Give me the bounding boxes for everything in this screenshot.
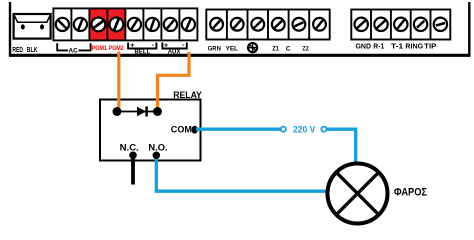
svg-text:RING: RING: [405, 44, 423, 51]
svg-text:RED: RED: [12, 45, 23, 54]
svg-text:BLK: BLK: [27, 45, 39, 54]
svg-text:YEL: YEL: [226, 46, 238, 53]
svg-text:TIP: TIP: [424, 44, 437, 51]
svg-text:PGM1 PGM2: PGM1 PGM2: [92, 45, 124, 52]
svg-text:GRN: GRN: [208, 46, 221, 53]
svg-text:Z1: Z1: [272, 46, 279, 53]
svg-text:N.C.: N.C.: [120, 142, 139, 153]
svg-text:+: +: [130, 42, 134, 49]
svg-text:220 V: 220 V: [293, 124, 316, 134]
svg-text:+: +: [164, 42, 168, 49]
svg-text:GND: GND: [356, 44, 372, 51]
svg-text:R-1: R-1: [373, 44, 384, 51]
svg-text:BELL: BELL: [135, 49, 151, 56]
svg-text:C: C: [286, 46, 291, 53]
svg-text:AC: AC: [69, 48, 78, 55]
svg-text:Z2: Z2: [302, 46, 308, 53]
svg-text:COM: COM: [171, 124, 192, 134]
svg-text:AUX: AUX: [168, 49, 181, 56]
svg-text:RELAY: RELAY: [173, 90, 202, 100]
svg-text:N.O.: N.O.: [148, 142, 167, 153]
svg-text:T-1: T-1: [391, 44, 403, 51]
svg-text:ΦΑΡΟΣ: ΦΑΡΟΣ: [394, 187, 428, 199]
